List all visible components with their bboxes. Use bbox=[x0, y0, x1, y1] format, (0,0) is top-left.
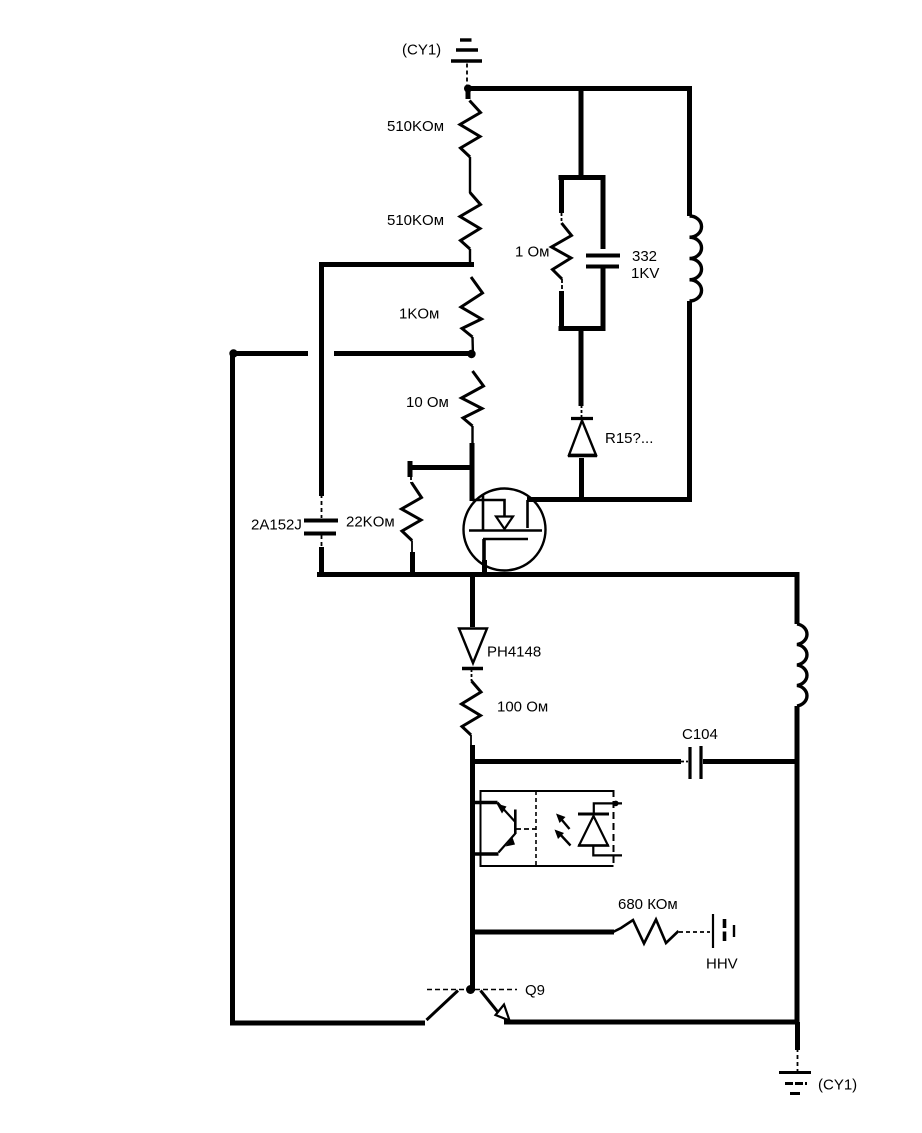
resistor 510KОм (second) bbox=[460, 193, 481, 250]
ground (CY1) bottom bbox=[779, 1073, 811, 1094]
svg-text:22KОм: 22KОм bbox=[346, 514, 395, 531]
ground (CY1) top bbox=[451, 40, 482, 61]
wire: right lower branch upper vertical bbox=[795, 572, 800, 624]
node: top junction bbox=[464, 85, 472, 93]
diode R15?... bbox=[568, 405, 597, 456]
wire: diode to drain line bbox=[579, 458, 584, 502]
svg-text:510KОм: 510KОм bbox=[387, 212, 444, 229]
wire: top rail bbox=[466, 86, 692, 91]
wire: mid-left horizontal right segment bbox=[334, 351, 472, 356]
capacitor 332 1KV bbox=[586, 254, 620, 258]
optocoupler U2 bbox=[481, 790, 614, 866]
wire: right branch lower vertical bbox=[687, 301, 692, 502]
svg-text:680 КОм: 680 КОм bbox=[618, 896, 678, 913]
wire: left vertical through opto to Q9 bbox=[470, 735, 472, 746]
wire: upper-left horizontal bbox=[319, 262, 474, 267]
svg-text:(CY1): (CY1) bbox=[402, 42, 441, 59]
svg-text:1KОм: 1KОм bbox=[399, 306, 439, 323]
wire: between 510K resistors bbox=[469, 157, 471, 193]
wire: C104 left wire bbox=[471, 759, 681, 764]
resistor 10 Ом bbox=[462, 371, 484, 426]
resistor 1 Ом bbox=[552, 223, 572, 279]
svg-text:PH4148: PH4148 bbox=[487, 644, 541, 661]
node: 22K top stub bbox=[408, 461, 413, 477]
wire: RC box to diode bbox=[579, 329, 584, 406]
resistor 680 КОм bbox=[613, 920, 679, 944]
svg-text:10 Ом: 10 Ом bbox=[406, 394, 449, 411]
wire: right lower branch vertical bbox=[795, 706, 800, 1024]
wire: right branch upper vertical bbox=[687, 86, 692, 216]
svg-text:332: 332 bbox=[632, 248, 657, 265]
node: dot at resistor chain mid bbox=[467, 350, 475, 358]
wire: dashed to battery bbox=[679, 931, 710, 933]
wire: RC box left leg bottom bbox=[561, 279, 563, 291]
wire: RC box right leg bottom bbox=[601, 268, 606, 331]
wire: left capacitor branch vertical bbox=[319, 262, 324, 496]
wire: 10 Ом to gate bbox=[471, 426, 473, 445]
wire: RC box right leg top bbox=[601, 175, 606, 249]
wire: bottom-right rail bbox=[504, 1020, 800, 1025]
diode: opto LED bbox=[578, 801, 622, 856]
wire: RC branch from top rail bbox=[579, 88, 584, 177]
svg-text:510KОм: 510KОм bbox=[387, 118, 444, 135]
svg-text:2A152J: 2A152J bbox=[251, 517, 302, 534]
svg-text:R15?...: R15?... bbox=[605, 430, 653, 447]
wire: mid-left horizontal left segment bbox=[231, 351, 308, 356]
svg-text:1 Ом: 1 Ом bbox=[515, 244, 550, 261]
light arrows of optocoupler bbox=[555, 814, 571, 846]
wire: RC box bottom bar bbox=[559, 326, 605, 331]
transistor U1 MOSFET bbox=[464, 489, 546, 578]
battery HHV bbox=[713, 914, 734, 948]
resistor 22KОм bbox=[402, 483, 422, 541]
wire: RC box top bar bbox=[559, 175, 605, 180]
wire: opto pin top-left bbox=[470, 801, 498, 804]
wire: ground stub bottom right bbox=[795, 1022, 800, 1050]
svg-text:100 Ом: 100 Ом bbox=[497, 699, 548, 716]
wire: diode to 100 Ом bbox=[471, 669, 473, 681]
wire: branch to 22K resistor bbox=[411, 465, 475, 470]
node: 22K bottom stub bbox=[411, 541, 413, 554]
capacitor 2A152J bbox=[304, 494, 338, 576]
wire: bottom-left horizontal bbox=[230, 1021, 425, 1026]
wire: RC box left leg top bbox=[559, 175, 564, 213]
svg-text:1KV: 1KV bbox=[631, 265, 659, 282]
wire: 1K to mid node bbox=[471, 337, 474, 356]
svg-text:Q9: Q9 bbox=[525, 982, 545, 999]
node: left rail top dot bbox=[229, 349, 237, 357]
wire: C104 right wire bbox=[703, 759, 799, 764]
resistor 1KОм bbox=[461, 277, 483, 337]
wire: 510K to 1K node bbox=[469, 249, 471, 266]
wire: 680K wire from left vertical bbox=[471, 930, 614, 935]
inductor L1 bbox=[690, 216, 702, 301]
svg-text:(CY1): (CY1) bbox=[818, 1077, 857, 1094]
resistor 510KОм (first) bbox=[460, 101, 481, 158]
svg-text:C104: C104 bbox=[682, 726, 718, 743]
capacitor C104 bbox=[690, 746, 701, 779]
wire: gate feed thick bbox=[470, 443, 475, 501]
diode PH4148 bbox=[459, 629, 487, 669]
wire: bottom rail (source rail) bbox=[317, 572, 799, 577]
inductor L2 bbox=[797, 624, 807, 706]
transistor Q9 bbox=[427, 985, 518, 1021]
wire: left rail vertical bbox=[230, 351, 235, 1025]
resistor 100 Ом bbox=[462, 681, 482, 735]
wire: opto pin bottom-left bbox=[470, 852, 499, 855]
wire: PH4148 branch from rail bbox=[470, 574, 475, 627]
wire: dashed stub from top ground to node bbox=[466, 64, 468, 87]
wire: drain line to right branch bbox=[527, 497, 692, 502]
transistor: opto phototransistor bbox=[497, 803, 537, 853]
svg-text:HHV: HHV bbox=[706, 956, 738, 973]
